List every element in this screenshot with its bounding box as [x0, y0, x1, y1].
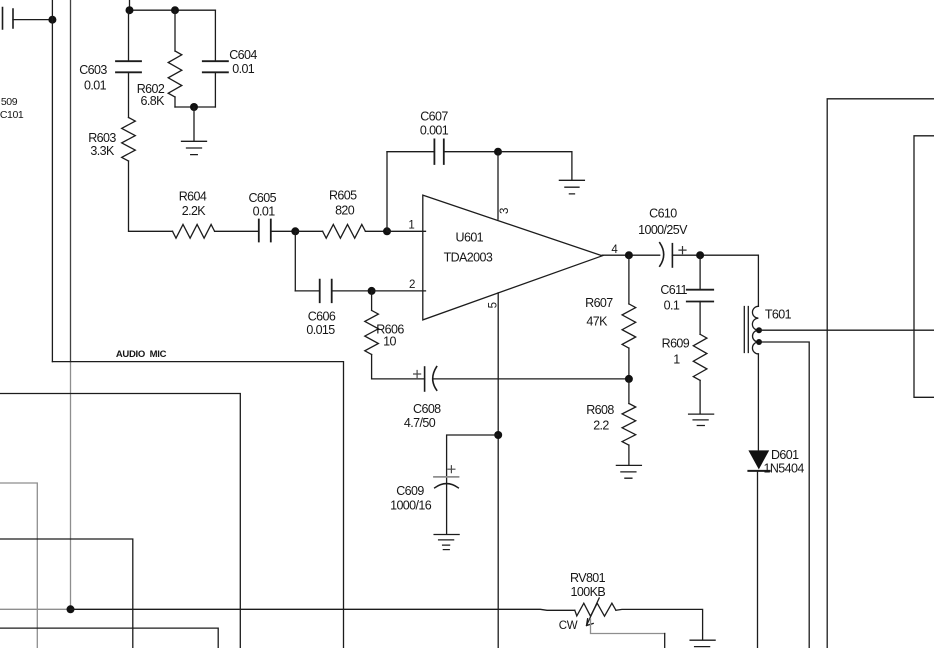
svg-text:0.01: 0.01	[232, 62, 255, 76]
svg-text:0.015: 0.015	[306, 323, 335, 337]
op-amp U601 TDA2003	[423, 195, 602, 320]
wire T601 upper tap out	[759, 329, 934, 331]
ground G1	[182, 107, 207, 155]
svg-text:1N5404: 1N5404	[764, 461, 805, 475]
wire R607 to junction	[628, 348, 630, 379]
node junction pin3/ground	[494, 148, 502, 156]
wire node3 to ground	[498, 152, 572, 180]
svg-text:C606: C606	[308, 310, 336, 324]
capacitor C609 polarized	[434, 477, 459, 488]
wire wiper out corner down	[664, 634, 666, 648]
capacitor C611	[687, 290, 713, 302]
ground G6	[690, 640, 715, 646]
wire pin 5 vertical	[497, 293, 499, 648]
plus sign C610	[679, 247, 686, 254]
wire top rail	[130, 0, 216, 10]
svg-text:R607: R607	[585, 296, 613, 310]
svg-text:0.01: 0.01	[84, 79, 107, 93]
wire C609 top lead	[447, 435, 499, 534]
capacitor C607	[434, 139, 443, 164]
transformer T601 core	[744, 307, 748, 353]
node junction pin2	[368, 287, 376, 295]
svg-text:3: 3	[499, 208, 511, 214]
wire R608 to ground	[628, 445, 630, 465]
resistor R609	[693, 334, 707, 380]
node junction rail-R602	[171, 6, 179, 14]
svg-text:RC101: RC101	[0, 109, 24, 121]
capacitor C606	[320, 280, 332, 303]
capacitor C605	[259, 220, 271, 242]
wire feedback to C607	[387, 151, 434, 153]
wire C610 to T601	[672, 255, 758, 306]
node junction rail-C603	[126, 6, 134, 14]
svg-text:2.2K: 2.2K	[182, 204, 207, 218]
wire C607 to node3	[444, 151, 498, 153]
wire R606 top lead	[371, 291, 373, 311]
svg-text:C604: C604	[229, 48, 257, 62]
resistor R603	[122, 118, 136, 162]
wire R603 to main row	[129, 161, 173, 231]
capacitor C509 (partial, left edge)	[3, 8, 14, 30]
wire R605 to pin1 node	[365, 230, 387, 232]
resistor R607	[622, 304, 636, 348]
svg-text:1: 1	[408, 220, 414, 232]
node junction ground bus	[190, 103, 198, 111]
svg-text:4: 4	[611, 244, 618, 256]
wire vertical bus x=52	[51, 0, 53, 362]
potentiometer RV801 wiper arrow	[587, 598, 600, 626]
resistor R604	[173, 224, 215, 238]
capacitor C610 polarized	[660, 243, 673, 267]
svg-text:AUDIO MIC: AUDIO MIC	[116, 349, 167, 360]
wire pin 2 stub	[372, 290, 426, 292]
wire C603 top lead	[128, 10, 130, 61]
wire vertical gray bus x=70 lower	[70, 362, 72, 609]
svg-text:0.001: 0.001	[420, 124, 449, 138]
svg-text:10: 10	[383, 335, 396, 349]
ground G4	[616, 465, 641, 478]
wire pin 1 stub	[387, 230, 426, 232]
svg-text:C605: C605	[248, 191, 276, 205]
svg-text:C607: C607	[420, 109, 448, 123]
wire R602 top lead	[174, 10, 176, 51]
node junction pin5/C609	[494, 431, 502, 439]
wire R602 bottom lead	[174, 97, 176, 107]
diode D601 cathode bar	[748, 470, 769, 472]
svg-text:1000/25V: 1000/25V	[638, 223, 688, 237]
node junction bottom bus	[67, 605, 75, 613]
wire feedback vertical	[386, 152, 388, 232]
svg-text:R603: R603	[88, 131, 116, 145]
svg-text:R604: R604	[179, 190, 207, 204]
svg-text:2.2: 2.2	[593, 419, 609, 433]
node junction C610/C611	[696, 251, 704, 259]
wire C606 to pin2 node	[332, 290, 372, 292]
svg-text:C609: C609	[396, 484, 424, 498]
plus sign C609	[448, 466, 455, 473]
capacitor C603	[116, 61, 141, 72]
svg-text:5: 5	[488, 302, 500, 308]
svg-text:0.1: 0.1	[664, 298, 680, 312]
wire R609 to ground	[699, 380, 701, 413]
svg-text:C611: C611	[660, 283, 687, 297]
svg-text:1000/16: 1000/16	[390, 499, 432, 513]
box right inner	[914, 136, 934, 398]
plus sign C608	[414, 371, 421, 378]
wire RV801 wiper out	[591, 619, 665, 634]
diode D601	[748, 450, 769, 469]
transformer T601 winding	[752, 306, 758, 354]
wire R602/C604 bottom bus	[175, 106, 215, 108]
wire C606 branch vertical	[294, 231, 296, 291]
wire pin 3	[497, 152, 499, 220]
svg-text:C603: C603	[79, 63, 107, 77]
wire C608 to R607/R608 junction	[434, 378, 629, 380]
wire to C606	[295, 290, 319, 292]
svg-text:RV801: RV801	[570, 571, 606, 585]
capacitor C608 polarized	[425, 367, 437, 391]
svg-text:0.01: 0.01	[253, 205, 276, 219]
resistor R606	[365, 310, 379, 354]
svg-text:CW: CW	[559, 620, 578, 632]
wire bottom bus to RV801	[71, 609, 575, 610]
box D	[0, 628, 218, 648]
wire T601 lower tap out	[759, 342, 809, 648]
node T601 tap lower	[756, 339, 762, 345]
svg-text:T601: T601	[765, 308, 792, 322]
svg-text:1: 1	[673, 353, 680, 367]
capacitor C604	[203, 61, 228, 72]
node T601 tap upper	[756, 327, 762, 333]
wire C611 to R609	[699, 302, 701, 335]
svg-text:6.8K: 6.8K	[141, 94, 166, 108]
svg-text:U601: U601	[456, 231, 484, 245]
wire T601 bottom to D601	[757, 354, 759, 450]
potentiometer RV801	[575, 603, 616, 616]
resistor R605	[323, 224, 366, 238]
box B gray	[0, 483, 37, 648]
svg-text:509: 509	[1, 96, 18, 108]
node junction R607/R608	[625, 375, 633, 383]
wire C603 to R603	[128, 72, 130, 117]
svg-text:820: 820	[335, 203, 355, 217]
wire R608 top lead	[628, 379, 630, 404]
wire C611 top lead	[699, 255, 701, 290]
wire R607 top lead	[628, 255, 630, 304]
svg-text:3.3K: 3.3K	[90, 144, 115, 158]
wire RV801 right lead	[616, 609, 703, 639]
wire C509 to node	[13, 19, 52, 21]
ground G5	[434, 535, 459, 546]
svg-text:TDA2003: TDA2003	[444, 250, 493, 264]
svg-text:C608: C608	[413, 402, 441, 416]
svg-text:100KB: 100KB	[571, 585, 606, 599]
node junction pin4/R607	[625, 251, 633, 259]
resistor R602	[168, 51, 182, 97]
svg-text:R609: R609	[662, 337, 690, 351]
wire D601 to bottom	[757, 471, 759, 648]
wire AUDIO MIC net	[52, 362, 343, 648]
wire pin 4 output	[602, 254, 660, 256]
svg-text:C610: C610	[649, 207, 677, 221]
node junction pin1	[383, 227, 391, 235]
wire R604 to C605	[215, 230, 259, 232]
wire bottom bus gray segment	[0, 608, 71, 610]
svg-text:4.7/50: 4.7/50	[404, 416, 436, 430]
resistor R608	[622, 404, 636, 446]
wire C604 bottom lead	[214, 72, 216, 107]
svg-text:47K: 47K	[586, 314, 608, 328]
box A bottom-left	[0, 394, 240, 648]
minus sign C609	[443, 549, 449, 551]
svg-text:R608: R608	[586, 403, 614, 417]
wire R606 to C608	[372, 355, 425, 379]
wire vertical gray bus x=70 upper	[70, 0, 72, 362]
node junction C605/C606	[291, 227, 299, 235]
svg-text:2: 2	[409, 279, 415, 291]
box right outer	[827, 99, 934, 648]
box C	[0, 539, 133, 648]
ground G3	[689, 414, 714, 425]
svg-text:D601: D601	[771, 448, 799, 462]
svg-text:R605: R605	[329, 189, 357, 203]
wire C604 top lead	[214, 10, 216, 61]
wire node to R605	[295, 230, 322, 232]
ground G2	[559, 180, 584, 194]
wire C605 to node	[271, 230, 296, 232]
node junction top-left	[48, 16, 56, 24]
